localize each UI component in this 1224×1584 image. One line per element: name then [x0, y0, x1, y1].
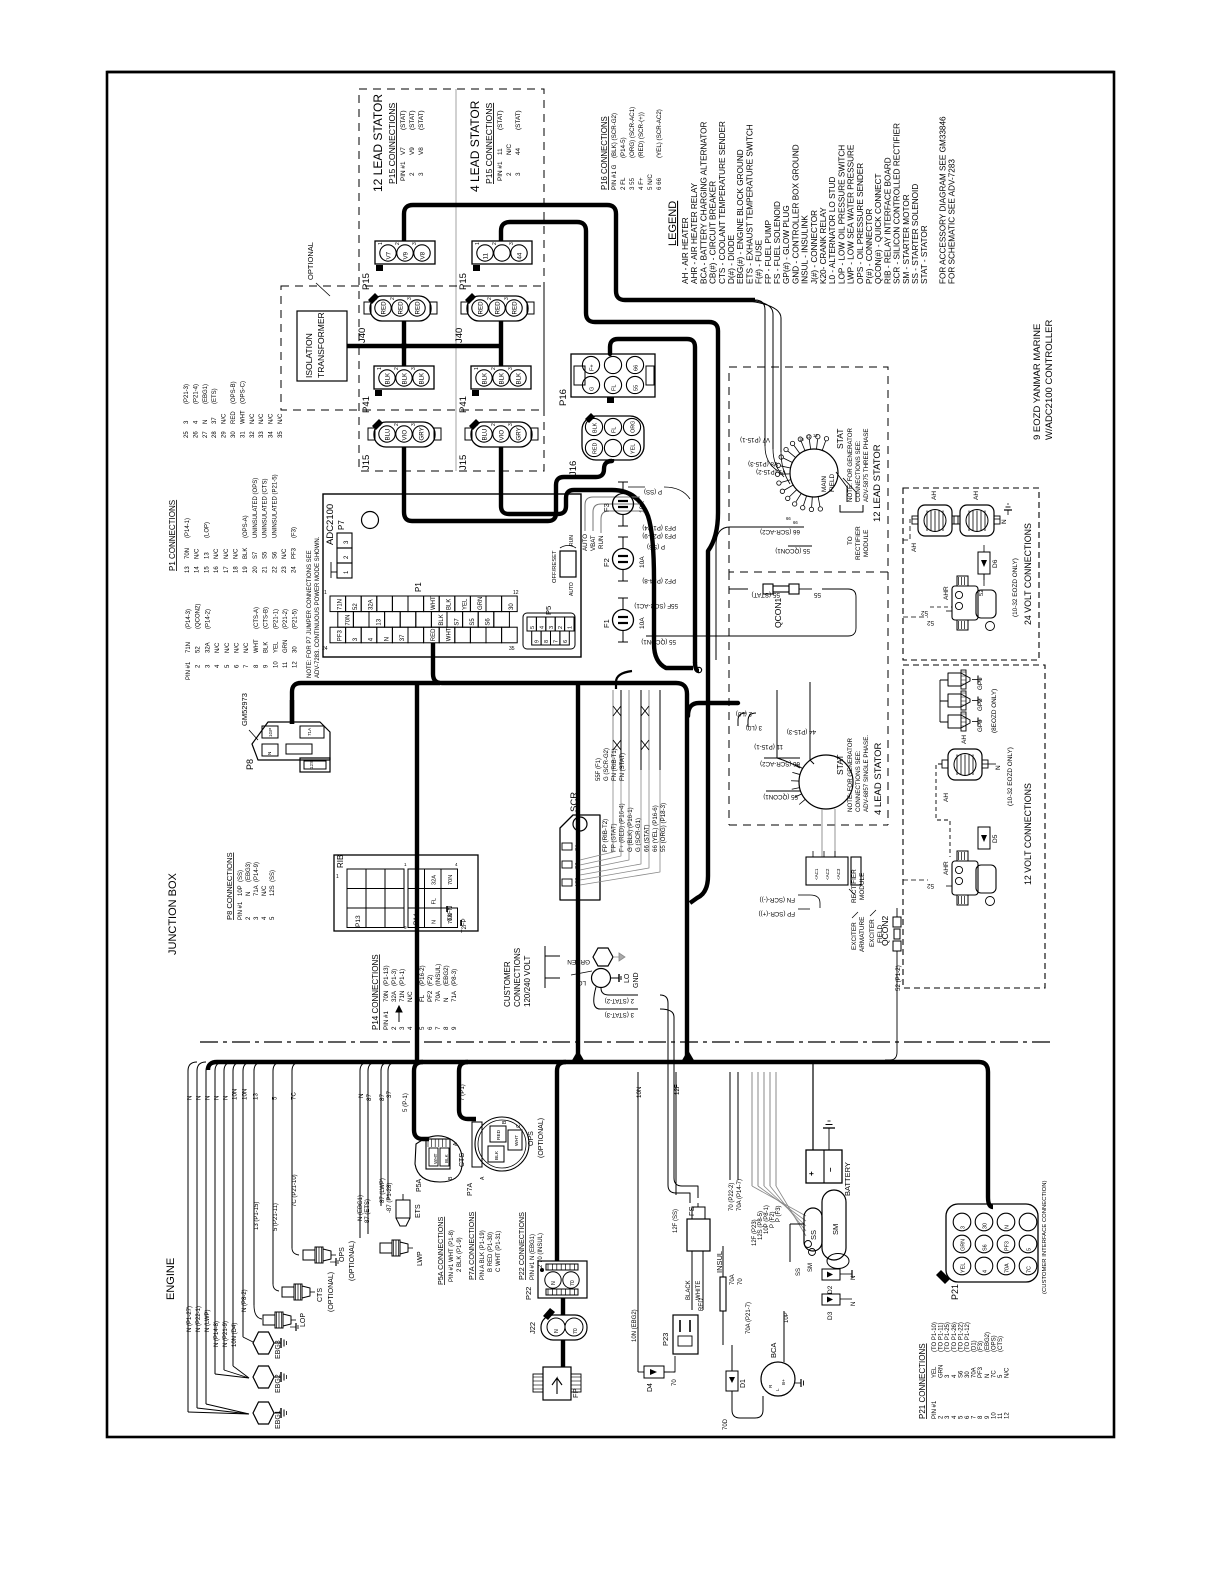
svg-text:T2FP: T2FP: [462, 918, 468, 933]
svg-text:P15 CONNECTIONS: P15 CONNECTIONS: [387, 103, 397, 184]
svg-text:2: 2: [492, 242, 498, 245]
svg-text:10P: 10P: [784, 1312, 790, 1323]
svg-text:WHT: WHT: [514, 1135, 520, 1146]
svg-text:LWP - LOW SEA WATER PRESSURE: LWP - LOW SEA WATER PRESSURE: [847, 144, 856, 284]
svg-text:EBG3: EBG3: [275, 1340, 282, 1359]
svg-text:BLK: BLK: [593, 422, 599, 433]
svg-text:8: 8: [544, 640, 550, 643]
svg-text:32: 32: [250, 431, 256, 438]
svg-text:GP2: GP2: [977, 698, 984, 711]
svg-text:1: 1: [404, 862, 407, 867]
svg-text:1: 1: [324, 590, 327, 596]
svg-text:(OPS-C): (OPS-C): [240, 381, 246, 404]
svg-text:55F (SCR-AC1): 55F (SCR-AC1): [634, 602, 678, 609]
svg-text:13: 13: [185, 566, 191, 573]
svg-text:QCON(#) - QUICK CONNECT: QCON(#) - QUICK CONNECT: [874, 173, 883, 284]
svg-text:UNINSULATED (P21-5): UNINSULATED (P21-5): [272, 474, 278, 538]
svg-text:RED: RED: [415, 301, 422, 315]
svg-text:55 (QCON1): 55 (QCON1): [775, 547, 810, 554]
svg-text:P8 CONNECTIONS: P8 CONNECTIONS: [225, 852, 234, 920]
svg-text:(SS): (SS): [238, 870, 244, 882]
svg-text:PF2: PF2: [427, 990, 434, 1002]
svg-text:6: 6: [427, 1026, 434, 1030]
svg-text:(P14-5): (P14-5): [620, 137, 627, 158]
svg-text:N/C: N/C: [224, 548, 230, 559]
svg-text:4: 4: [983, 1270, 989, 1273]
svg-text:S6: S6: [486, 618, 492, 626]
svg-text:LOP - LOW OIL PRESSURE SWITCH: LOP - LOW OIL PRESSURE SWITCH: [837, 145, 846, 284]
svg-text:33: 33: [259, 431, 265, 438]
svg-text:ADV-7283. CONTINUOUS POWER MOD: ADV-7283. CONTINUOUS POWER MODE SHOWN.: [315, 536, 321, 678]
svg-text:66 (YEL) (P16-6): 66 (YEL) (P16-6): [652, 805, 659, 852]
svg-text:70N: 70N: [383, 991, 390, 1002]
svg-text:2: 2: [558, 626, 564, 629]
svg-text:N/C: N/C: [262, 885, 268, 896]
svg-text:STAT: STAT: [835, 755, 845, 775]
svg-text:RED: RED: [593, 443, 599, 454]
svg-text:G: G: [590, 387, 596, 391]
svg-text:70N: 70N: [448, 875, 454, 885]
svg-text:MAIN: MAIN: [821, 476, 828, 492]
svg-text:5: 5: [530, 626, 536, 629]
svg-text:(OPS): (OPS): [991, 1335, 997, 1352]
svg-text:GP1: GP1: [977, 677, 984, 690]
svg-text:RECTIFIER: RECTIFIER: [855, 526, 862, 560]
svg-text:22: 22: [272, 566, 278, 573]
svg-text:P15: P15: [361, 273, 372, 290]
svg-text:N: N: [246, 892, 252, 896]
svg-text:(OPTIONAL): (OPTIONAL): [349, 1241, 356, 1281]
svg-text:16: 16: [214, 566, 220, 573]
svg-text:3 (STAT-3): 3 (STAT-3): [605, 1011, 634, 1018]
svg-text:(P21-3): (P21-3): [184, 384, 190, 404]
svg-text:N (P8-2): N (P8-2): [242, 1289, 248, 1312]
svg-text:C WHT (P1-31): C WHT (P1-31): [496, 1231, 502, 1272]
svg-text:CB(#) - CIRCUIT BREAKER: CB(#) - CIRCUIT BREAKER: [709, 181, 718, 284]
svg-text:N: N: [554, 1329, 560, 1333]
svg-text:GP3: GP3: [977, 719, 984, 732]
svg-text:N: N: [205, 1096, 212, 1100]
svg-text:BLK: BLK: [419, 372, 426, 385]
svg-text:30: 30: [293, 646, 299, 653]
svg-text:11: 11: [806, 434, 811, 439]
svg-text:70: 70: [738, 1278, 744, 1285]
svg-text:B+: B+: [781, 1379, 786, 1385]
svg-text:RIB: RIB: [336, 855, 345, 868]
svg-text:GRN: GRN: [478, 597, 484, 610]
svg-text:10N: 10N: [232, 1089, 239, 1100]
svg-text:V7: V7: [400, 147, 407, 155]
svg-text:GP(#) - GLOW PLUG: GP(#) - GLOW PLUG: [782, 205, 791, 284]
svg-text:YEL: YEL: [273, 641, 279, 653]
svg-text:L0 - ALTERNATOR LO STUD: L0 - ALTERNATOR LO STUD: [828, 177, 837, 284]
svg-text:(D1): (D1): [972, 1340, 978, 1352]
svg-text:55F (F1): 55F (F1): [596, 758, 602, 781]
svg-text:70A: 70A: [730, 1274, 736, 1285]
svg-text:–: –: [826, 1167, 835, 1172]
svg-text:FP (STAT): FP (STAT): [610, 823, 617, 852]
svg-text:(P1-3): (P1-3): [391, 969, 398, 986]
svg-text:15: 15: [204, 566, 210, 573]
svg-text:BLU: BLU: [482, 428, 489, 440]
svg-text:GND - CONTROLLER BOX GROUND: GND - CONTROLLER BOX GROUND: [791, 144, 800, 284]
svg-text:N (P1-27): N (P1-27): [187, 1306, 193, 1332]
svg-text:J40: J40: [454, 328, 465, 343]
svg-text:P22 CONNECTIONS: P22 CONNECTIONS: [517, 1212, 526, 1280]
svg-text:PF2 (P14-8): PF2 (P14-8): [642, 577, 676, 584]
svg-text:1: 1: [377, 367, 383, 370]
svg-text:V8: V8: [420, 251, 427, 259]
svg-text:71N: 71N: [186, 642, 192, 653]
svg-text:V7 (P15-1): V7 (P15-1): [740, 436, 770, 443]
svg-text:WHITE: WHITE: [696, 1281, 702, 1300]
svg-text:GM52973: GM52973: [240, 693, 249, 726]
svg-text:71A: 71A: [451, 990, 458, 1002]
svg-text:PIN #1 WHT (P1-8): PIN #1 WHT (P1-8): [449, 1230, 455, 1282]
svg-text:J22: J22: [528, 1322, 537, 1334]
svg-text:LO: LO: [577, 979, 586, 986]
svg-text:PIN #1: PIN #1: [932, 1400, 938, 1419]
svg-text:10: 10: [273, 661, 279, 668]
svg-text:17: 17: [224, 566, 230, 573]
svg-text:N/C: N/C: [282, 548, 288, 559]
svg-text:5: 5: [419, 1026, 426, 1030]
svg-text:YEL: YEL: [961, 1263, 967, 1273]
svg-text:D3: D3: [827, 1311, 834, 1320]
svg-text:5 (P21-11): 5 (P21-11): [273, 1203, 279, 1231]
svg-text:N: N: [995, 765, 1002, 770]
svg-text:SS - STARTER SOLENOID: SS - STARTER SOLENOID: [911, 184, 920, 284]
svg-text:AC2: AC2: [574, 877, 580, 887]
svg-text:31: 31: [240, 431, 246, 438]
svg-text:RED: RED: [495, 301, 502, 315]
svg-text:(P1-13): (P1-13): [383, 965, 390, 986]
svg-text:WHT: WHT: [254, 639, 260, 653]
svg-text:ADV-5875 THREE PHASE: ADV-5875 THREE PHASE: [863, 429, 870, 502]
svg-text:3 (L0): 3 (L0): [746, 724, 762, 731]
svg-text:FP: FP: [571, 1388, 580, 1398]
svg-text:AUTO: AUTO: [569, 582, 575, 596]
svg-text:(10-32 EOZD ONLY): (10-32 EOZD ONLY): [1007, 747, 1014, 806]
svg-text:3: 3: [399, 1026, 406, 1030]
svg-text:12S: 12S: [309, 761, 314, 769]
svg-text:5 N/C: 5 N/C: [647, 174, 654, 190]
svg-text:OPTIONAL: OPTIONAL: [306, 242, 315, 280]
svg-text:2: 2: [491, 423, 497, 426]
svg-text:70: 70: [672, 1379, 678, 1386]
svg-text:87 (LWP): 87 (LWP): [380, 1178, 386, 1203]
svg-text:CONNECTIONS SEE:: CONNECTIONS SEE:: [855, 750, 862, 812]
svg-text:P22: P22: [524, 1287, 533, 1300]
svg-text:12F (SS): 12F (SS): [673, 1209, 679, 1233]
svg-text:9: 9: [451, 1026, 458, 1030]
svg-text:WHT: WHT: [447, 627, 453, 641]
svg-text:P (SS): P (SS): [644, 488, 662, 495]
svg-text:PF3 (P21-9): PF3 (P21-9): [642, 532, 676, 539]
svg-text:FL: FL: [432, 898, 438, 905]
svg-text:D5: D5: [992, 834, 999, 843]
svg-text:T3FN: T3FN: [448, 906, 454, 921]
svg-text:71A: 71A: [307, 727, 312, 736]
svg-text:70N: 70N: [185, 548, 191, 559]
svg-text:G2: G2: [574, 862, 580, 869]
svg-text:STAT - STATOR: STAT - STATOR: [920, 225, 929, 284]
svg-text:UNINSULATED (OPS): UNINSULATED (OPS): [253, 478, 259, 538]
svg-text:N: N: [851, 1302, 857, 1306]
svg-text:7C: 7C: [1027, 1266, 1033, 1273]
svg-text:G1: G1: [574, 844, 580, 851]
svg-text:P5A: P5A: [416, 1178, 423, 1192]
svg-text:L: L: [775, 1388, 780, 1391]
svg-text:PIN #1: PIN #1: [400, 161, 407, 181]
svg-text:7C (P21-10): 7C (P21-10): [292, 1174, 298, 1207]
svg-text:5: 5: [272, 1096, 279, 1100]
svg-text:P41: P41: [458, 396, 469, 413]
svg-text:2: 2: [394, 367, 400, 370]
svg-text:44: 44: [515, 147, 522, 155]
svg-text:(CTS-B): (CTS-B): [264, 607, 270, 629]
svg-text:3: 3: [411, 423, 417, 426]
svg-text:SCR - SILICON CONTROLLED RECTI: SCR - SILICON CONTROLLED RECTIFIER: [893, 123, 902, 284]
svg-text:66 (SCR-AC2): 66 (SCR-AC2): [760, 528, 800, 535]
svg-text:GRN: GRN: [961, 1239, 967, 1251]
svg-text:FOR SCHEMATIC SEE ADV-7283: FOR SCHEMATIC SEE ADV-7283: [948, 159, 957, 284]
svg-text:BLK: BLK: [482, 372, 489, 385]
svg-text:RED: RED: [478, 301, 485, 315]
svg-text:(BLK) (SCR-G2): (BLK) (SCR-G2): [611, 113, 618, 158]
svg-text:P23: P23: [661, 1333, 670, 1346]
svg-text:AH: AH: [961, 735, 968, 744]
svg-text:3 55: 3 55: [629, 177, 636, 190]
svg-text:52 (P1-2): 52 (P1-2): [895, 965, 902, 991]
svg-text:37: 37: [386, 1091, 393, 1098]
svg-text:3: 3: [549, 626, 555, 629]
svg-text:25: 25: [184, 431, 190, 438]
svg-text:N/C: N/C: [1005, 1367, 1011, 1378]
svg-text:SS: SS: [796, 1268, 802, 1276]
svg-text:P15 CONNECTIONS: P15 CONNECTIONS: [484, 103, 494, 184]
svg-text:PIN #1: PIN #1: [186, 661, 192, 680]
svg-text:6: 6: [563, 640, 569, 643]
svg-text:70 (P22-2): 70 (P22-2): [729, 1183, 735, 1211]
svg-text:3: 3: [418, 172, 425, 176]
svg-text:FS - FUEL SOLENOID: FS - FUEL SOLENOID: [773, 201, 782, 284]
svg-text:29: 29: [222, 431, 228, 438]
svg-text:F3: F3: [602, 503, 611, 512]
svg-text:CONNECTIONS: CONNECTIONS: [513, 948, 522, 1007]
svg-text:P (F3): P (F3): [776, 1205, 782, 1222]
svg-text:N: N: [358, 1094, 365, 1098]
svg-text:10N (D4): 10N (D4): [232, 1323, 238, 1347]
svg-text:5 (P-1): 5 (P-1): [402, 1093, 409, 1112]
svg-text:71N: 71N: [338, 599, 344, 610]
svg-text:NOTE: FOR GENERATOR: NOTE: FOR GENERATOR: [847, 427, 854, 502]
svg-text:7: 7: [435, 1026, 442, 1030]
svg-text:70A: 70A: [972, 1367, 978, 1378]
svg-text:(OPTIONAL): (OPTIONAL): [328, 1272, 335, 1312]
svg-text:2 70 (INSUL): 2 70 (INSUL): [538, 1233, 544, 1268]
svg-text:J15: J15: [361, 455, 372, 470]
svg-text:2: 2: [487, 297, 493, 300]
svg-text:13: 13: [204, 552, 210, 559]
svg-text:RED: RED: [431, 628, 437, 641]
svg-text:WHT: WHT: [431, 596, 437, 610]
svg-text:23: 23: [282, 566, 288, 573]
svg-text:24 VOLT CONNECTIONS: 24 VOLT CONNECTIONS: [1023, 523, 1033, 625]
svg-text:N: N: [214, 1096, 221, 1100]
svg-text:3: 3: [508, 367, 514, 370]
svg-text:V9: V9: [409, 147, 416, 155]
svg-text:9: 9: [535, 640, 541, 643]
svg-text:PIN #1: PIN #1: [497, 161, 504, 181]
svg-text:2 FL: 2 FL: [620, 177, 627, 190]
svg-text:4: 4: [455, 862, 458, 867]
svg-text:(STAT): (STAT): [515, 110, 522, 130]
svg-text:QCON1: QCON1: [773, 598, 783, 629]
svg-text:AHR: AHR: [943, 861, 950, 875]
svg-text:(OPS-A): (OPS-A): [243, 515, 249, 538]
svg-text:32A: 32A: [391, 990, 398, 1002]
svg-text:P5A CONNECTIONS: P5A CONNECTIONS: [436, 1216, 445, 1285]
svg-text:SM - STARTER MOTOR: SM - STARTER MOTOR: [902, 194, 911, 284]
svg-text:3: 3: [411, 367, 417, 370]
svg-text:(10-32 EOZD ONLY): (10-32 EOZD ONLY): [1012, 558, 1019, 617]
svg-text:FIELD: FIELD: [829, 474, 836, 492]
svg-text:PIN #1: PIN #1: [383, 1011, 390, 1030]
svg-text:N/C: N/C: [214, 548, 220, 559]
svg-text:INSUL - INSULINK: INSUL - INSULINK: [801, 215, 810, 284]
svg-text:S6: S6: [272, 551, 278, 559]
svg-text:4: 4: [539, 626, 545, 629]
svg-text:32A: 32A: [205, 642, 211, 653]
svg-text:RIB - RELAY INTERFACE BOARD: RIB - RELAY INTERFACE BOARD: [883, 157, 892, 284]
svg-text:1: 1: [474, 367, 480, 370]
svg-text:70N: 70N: [345, 615, 351, 626]
svg-text:(TO P1-25): (TO P1-25): [945, 1322, 951, 1352]
svg-text:P1: P1: [414, 582, 423, 592]
svg-text:10A: 10A: [639, 617, 646, 629]
svg-text:BLACK: BLACK: [686, 1280, 692, 1300]
svg-text:P16: P16: [558, 389, 569, 406]
svg-text:10A: 10A: [639, 556, 646, 568]
svg-text:(RED) (SCR-(+)): (RED) (SCR-(+)): [638, 112, 645, 158]
svg-text:QCON2: QCON2: [880, 916, 890, 947]
svg-text:MODULE: MODULE: [863, 530, 870, 557]
svg-text:12S: 12S: [270, 885, 276, 896]
svg-text:10A: 10A: [639, 501, 646, 513]
svg-text:2: 2: [409, 172, 416, 176]
svg-text:52: 52: [196, 646, 202, 653]
svg-text:7: 7: [554, 640, 560, 643]
svg-text:ISOLATION: ISOLATION: [304, 333, 314, 378]
svg-text:S6: S6: [983, 1244, 989, 1251]
svg-text:4 LEAD STATOR: 4 LEAD STATOR: [468, 100, 482, 192]
svg-text:34: 34: [269, 431, 275, 438]
svg-text:66: 66: [634, 365, 640, 371]
svg-text:13: 13: [253, 1093, 260, 1100]
svg-text:71N: 71N: [415, 875, 421, 885]
svg-text:EBG1: EBG1: [275, 1410, 282, 1429]
svg-text:N: N: [187, 1096, 194, 1100]
svg-text:12: 12: [513, 590, 519, 596]
svg-text:N/C: N/C: [225, 642, 231, 653]
svg-text:N: N: [196, 1096, 203, 1100]
svg-text:N/C: N/C: [407, 991, 414, 1002]
svg-text:BLK: BLK: [499, 372, 506, 385]
svg-text:N/C: N/C: [250, 413, 256, 424]
svg-text:LO: LO: [624, 973, 631, 983]
svg-text:FOR ACCESSORY DIAGRAM SEE GM33: FOR ACCESSORY DIAGRAM SEE GM33846: [938, 116, 947, 284]
svg-text:12: 12: [813, 433, 818, 438]
svg-text:BLK: BLK: [243, 548, 249, 559]
svg-text:<AC1: <AC1: [814, 868, 819, 880]
svg-text:AH - AIR HEATER: AH - AIR HEATER: [681, 217, 690, 284]
svg-text:LWP: LWP: [417, 1251, 424, 1266]
svg-text:PF3: PF3: [338, 630, 344, 642]
svg-text:P7A: P7A: [467, 1182, 474, 1196]
svg-text:P21: P21: [950, 1284, 960, 1300]
svg-text:8: 8: [443, 1026, 450, 1030]
svg-text:N/C: N/C: [278, 413, 284, 424]
svg-text:V8 (P15-3): V8 (P15-3): [748, 460, 778, 467]
svg-text:N/C: N/C: [244, 642, 250, 653]
svg-text:J40: J40: [357, 328, 368, 343]
svg-text:6 66: 6 66: [656, 177, 663, 190]
svg-text:EXCITER: EXCITER: [851, 922, 858, 950]
svg-text:(INSUL): (INSUL): [435, 964, 442, 986]
svg-text:(STAT): (STAT): [418, 110, 425, 130]
svg-text:26: 26: [193, 431, 199, 438]
svg-text:P8: P8: [245, 759, 255, 770]
svg-text:11: 11: [998, 1412, 1004, 1419]
svg-text:F1: F1: [602, 619, 611, 628]
svg-text:PIN A BLK (P1-19): PIN A BLK (P1-19): [480, 1230, 486, 1280]
svg-text:EBG(#) - ENGINE BLOCK GROUND: EBG(#) - ENGINE BLOCK GROUND: [736, 149, 745, 284]
svg-text:LOP: LOP: [300, 1313, 307, 1327]
svg-text:EXCITER: EXCITER: [869, 919, 876, 947]
svg-text:PF3: PF3: [1005, 1241, 1011, 1251]
svg-text:7C: 7C: [991, 1370, 997, 1378]
svg-text:J16: J16: [568, 461, 579, 476]
svg-text:FS: FS: [687, 1206, 696, 1216]
svg-text:(P16-2): (P16-2): [419, 965, 426, 986]
svg-text:N: N: [1005, 1225, 1011, 1229]
svg-text:(P21-4): (P21-4): [193, 384, 199, 404]
svg-text:G (SCR-G2): G (SCR-G2): [604, 748, 610, 781]
svg-text:OPS - OIL PRESSURE SENDER: OPS - OIL PRESSURE SENDER: [856, 163, 865, 284]
svg-text:OPS: OPS: [528, 1131, 535, 1146]
svg-text:P14: P14: [413, 913, 420, 925]
svg-text:ETS - EXHAUST TEMPERATURE SWIT: ETS - EXHAUST TEMPERATURE SWITCH: [745, 124, 754, 284]
svg-text:+: +: [807, 1171, 816, 1176]
svg-text:P13: P13: [355, 915, 362, 927]
svg-text:RED: RED: [699, 1298, 705, 1311]
svg-text:WHT: WHT: [433, 1153, 438, 1164]
svg-text:11: 11: [283, 661, 289, 668]
svg-text:V8: V8: [418, 147, 425, 155]
svg-text:70A: 70A: [1005, 1263, 1011, 1273]
svg-text:71A: 71A: [254, 885, 260, 896]
svg-text:(P1-1): (P1-1): [399, 969, 406, 986]
svg-text:EBG2: EBG2: [275, 1374, 282, 1393]
svg-text:(P21-5): (P21-5): [293, 609, 299, 629]
svg-text:(QCON2): (QCON2): [196, 604, 202, 629]
svg-text:SM: SM: [831, 1224, 840, 1235]
svg-text:14: 14: [195, 566, 201, 573]
svg-text:GRN: GRN: [283, 640, 289, 653]
svg-text:PIN #1 N (EBG1): PIN #1 N (EBG1): [530, 1234, 536, 1280]
svg-text:PF2: PF2: [415, 894, 421, 904]
